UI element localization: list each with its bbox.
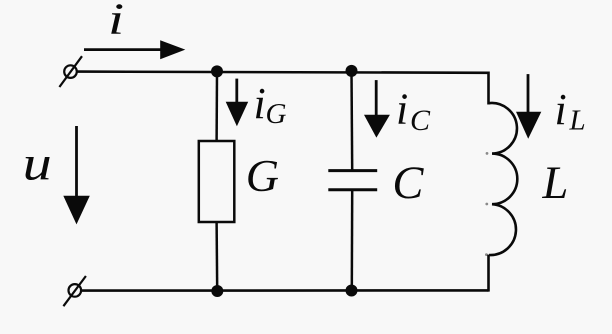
wire C branch top	[350, 72, 353, 171]
svg-text:C: C	[410, 104, 431, 137]
wire L branch bottom	[487, 255, 490, 292]
svg-text:i: i	[555, 85, 567, 134]
wire G branch bottom	[215, 222, 218, 291]
svg-text:L: L	[569, 105, 586, 137]
label iL	[555, 85, 586, 137]
svg-text:i: i	[396, 85, 408, 134]
resistor G	[199, 141, 235, 222]
current arrow iG	[226, 79, 249, 127]
wire L branch top	[487, 72, 490, 105]
node dot top C	[346, 65, 358, 77]
terminal bottom input	[63, 276, 86, 306]
current arrow iC	[364, 80, 390, 138]
current arrow iL	[516, 74, 541, 139]
node dot top G	[211, 65, 223, 77]
terminal top input	[59, 56, 82, 87]
label iG	[254, 79, 287, 130]
svg-text:L: L	[542, 158, 569, 209]
svg-text:i: i	[108, 0, 124, 44]
capacitor C	[328, 171, 377, 190]
inductor arc junction ticks	[485, 152, 488, 256]
inductor L	[489, 103, 518, 255]
wire G branch top	[215, 72, 218, 142]
svg-text:i: i	[254, 79, 266, 128]
wire top horizontal node A	[77, 72, 489, 73]
node dot bottom G	[211, 285, 223, 297]
wire bottom horizontal node B	[81, 289, 489, 292]
voltage arrow u	[63, 126, 90, 224]
svg-text:G: G	[246, 150, 279, 201]
node dot bottom C	[346, 285, 358, 297]
svg-text:G: G	[266, 98, 287, 130]
wire C branch bottom	[351, 190, 354, 291]
current arrow i	[84, 40, 185, 59]
label iC	[396, 85, 431, 138]
svg-text:C: C	[392, 158, 424, 209]
svg-text:u: u	[23, 136, 52, 190]
